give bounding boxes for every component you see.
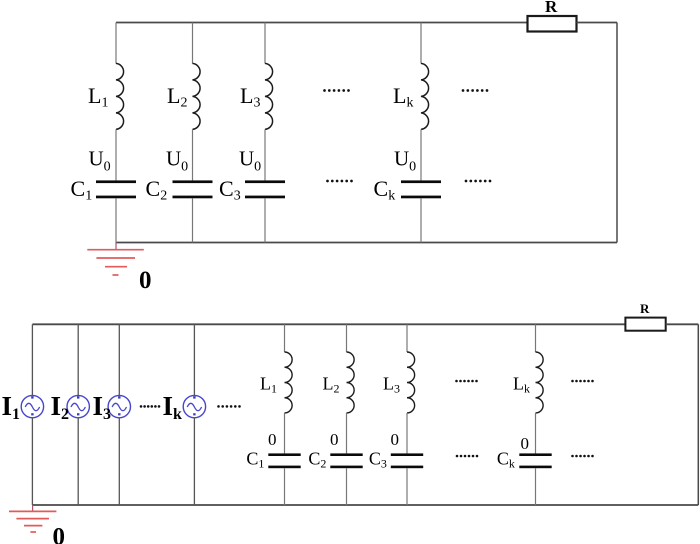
wire: source branch k upper segment bbox=[193, 324, 195, 395]
svg-text:Ik: Ik bbox=[163, 391, 183, 423]
svg-text:0: 0 bbox=[139, 267, 152, 294]
wire: LC branch 2 lower segment (lower) bbox=[346, 468, 348, 505]
wire: LC branch 3 lower segment (lower) bbox=[406, 468, 408, 505]
wire: LC branch 1 upper segment (lower circuit) bbox=[284, 324, 286, 352]
wire: LC branch 3 upper segment (lower circuit) bbox=[406, 324, 408, 352]
resistor R (lower) body bbox=[625, 318, 665, 331]
svg-text:C1: C1 bbox=[71, 176, 93, 204]
svg-text:R: R bbox=[545, 0, 558, 16]
dots right of Ck (lower capacitor row) bbox=[571, 455, 594, 458]
wire: upper top bus (right of R) bbox=[577, 22, 618, 24]
capacitor C3 (upper) plates bbox=[245, 180, 285, 198]
svg-text:U0: U0 bbox=[394, 147, 416, 175]
dots right of Lk (upper inductor row) bbox=[462, 89, 489, 92]
svg-text:I2: I2 bbox=[51, 391, 70, 423]
wire: branch k middle segment bbox=[420, 129, 422, 180]
dots between L3 and Lk (lower inductor row) bbox=[455, 380, 478, 383]
svg-text:Lk: Lk bbox=[513, 374, 530, 396]
wire: LC branch 2 middle segment (lower) bbox=[346, 413, 348, 453]
svg-text:U0: U0 bbox=[166, 147, 188, 175]
wire: source branch 2 lower segment bbox=[77, 418, 79, 505]
dots right of Lk (lower inductor row) bbox=[571, 380, 594, 383]
wire: branch 1 lower segment bbox=[115, 198, 117, 242]
capacitor C1 (upper) plates bbox=[96, 180, 136, 198]
svg-text:R: R bbox=[640, 301, 650, 316]
inductor L1 (lower) bbox=[285, 352, 293, 413]
current source Ik circle bbox=[183, 395, 205, 417]
wire: upper top bus (left of R) bbox=[116, 22, 528, 24]
current source I2 circle bbox=[67, 395, 89, 417]
dots right of Ck (upper capacitor row) bbox=[465, 180, 492, 183]
svg-text:L2: L2 bbox=[323, 374, 340, 396]
wire: LC branch 1 lower segment (lower) bbox=[284, 468, 286, 505]
inductor L1 (upper) bbox=[116, 63, 124, 129]
svg-text:L3: L3 bbox=[240, 83, 260, 111]
dots between C3 and Ck (upper capacitor row) bbox=[326, 180, 353, 183]
svg-text:Ck: Ck bbox=[374, 176, 396, 204]
svg-text:0: 0 bbox=[330, 430, 339, 449]
svg-text:Lk: Lk bbox=[393, 83, 413, 111]
wire: branch k upper segment bbox=[420, 23, 422, 64]
wire: source branch 2 upper segment bbox=[77, 324, 79, 395]
svg-text:I3: I3 bbox=[93, 391, 112, 423]
svg-text:L1: L1 bbox=[88, 83, 108, 111]
inductor Lk (upper) bbox=[421, 63, 429, 129]
current source I1 circle bbox=[21, 395, 43, 417]
current source I3 circle bbox=[108, 395, 130, 417]
dots between L3 and Lk (upper inductor row) bbox=[323, 89, 350, 92]
wire: lower right edge bbox=[697, 324, 699, 505]
wire: LC branch 3 middle segment (lower) bbox=[406, 413, 408, 453]
wire: branch k lower segment bbox=[420, 198, 422, 242]
resistor R (upper) body bbox=[528, 16, 577, 32]
wire: branch 1 middle segment bbox=[115, 129, 117, 180]
svg-text:U0: U0 bbox=[89, 147, 111, 175]
capacitor C2 (lower) plates bbox=[330, 453, 362, 468]
wire: upper bottom bus bbox=[116, 242, 617, 244]
svg-text:L2: L2 bbox=[167, 83, 187, 111]
wire: source branch k lower segment bbox=[193, 418, 195, 505]
wire: source branch 1 lower segment bbox=[31, 418, 33, 505]
wire: branch 3 middle segment bbox=[264, 129, 266, 180]
capacitor Ck (upper) plates bbox=[401, 180, 441, 198]
wire: branch 3 lower segment bbox=[264, 198, 266, 242]
svg-text:I1: I1 bbox=[2, 391, 21, 423]
svg-text:L3: L3 bbox=[383, 374, 400, 396]
wire: LC branch k upper segment (lower circuit) bbox=[535, 324, 537, 352]
wire: LC branch k middle segment (lower) bbox=[535, 413, 537, 453]
wire: branch 3 upper segment bbox=[264, 23, 266, 64]
wire: LC branch k lower segment (lower) bbox=[535, 468, 537, 505]
ground (upper circuit) bbox=[87, 243, 144, 276]
wire: source branch 1 upper segment bbox=[31, 324, 33, 395]
wire: upper right edge bbox=[616, 23, 618, 243]
svg-text:C2: C2 bbox=[146, 176, 168, 204]
svg-text:L1: L1 bbox=[260, 374, 277, 396]
svg-text:C1: C1 bbox=[246, 449, 264, 471]
svg-text:C2: C2 bbox=[308, 449, 326, 471]
svg-text:0: 0 bbox=[53, 524, 66, 544]
svg-text:Ck: Ck bbox=[497, 449, 515, 471]
ground (lower circuit) bbox=[9, 505, 56, 532]
capacitor C1 (lower) plates bbox=[268, 453, 300, 468]
inductor L2 (lower) bbox=[347, 352, 355, 413]
svg-text:0: 0 bbox=[521, 434, 530, 453]
inductor L3 (upper) bbox=[265, 63, 273, 129]
inductor L2 (upper) bbox=[193, 63, 201, 129]
dots between I3 and Ik bbox=[140, 405, 161, 408]
svg-text:C3: C3 bbox=[219, 176, 241, 204]
dots right of Ik bbox=[217, 405, 241, 408]
wire: branch 1 upper segment bbox=[115, 23, 117, 64]
wire: source branch 3 lower segment bbox=[118, 418, 120, 505]
svg-text:0: 0 bbox=[268, 430, 277, 449]
inductor L3 (lower) bbox=[407, 352, 415, 413]
wire: lower top bus (left of R) bbox=[32, 323, 625, 325]
capacitor Ck (lower) plates bbox=[519, 453, 551, 468]
dots between C3 and Ck (lower capacitor row) bbox=[456, 455, 479, 458]
wire: branch 2 lower segment bbox=[192, 198, 194, 242]
wire: source branch 3 upper segment bbox=[118, 324, 120, 395]
wire: branch 2 upper segment bbox=[192, 23, 194, 64]
wire: branch 2 middle segment bbox=[192, 129, 194, 180]
wire: LC branch 1 middle segment (lower) bbox=[284, 413, 286, 453]
svg-text:U0: U0 bbox=[239, 147, 261, 175]
capacitor C3 (lower) plates bbox=[391, 453, 423, 468]
capacitor C2 (upper) plates bbox=[173, 180, 213, 198]
wire: lower top bus (right of R) bbox=[666, 323, 699, 325]
wire: LC branch 2 upper segment (lower circuit) bbox=[346, 324, 348, 352]
svg-text:C3: C3 bbox=[369, 449, 387, 471]
inductor Lk (lower) bbox=[536, 352, 544, 413]
svg-text:0: 0 bbox=[391, 430, 400, 449]
wire: lower bottom bus bbox=[32, 504, 698, 506]
